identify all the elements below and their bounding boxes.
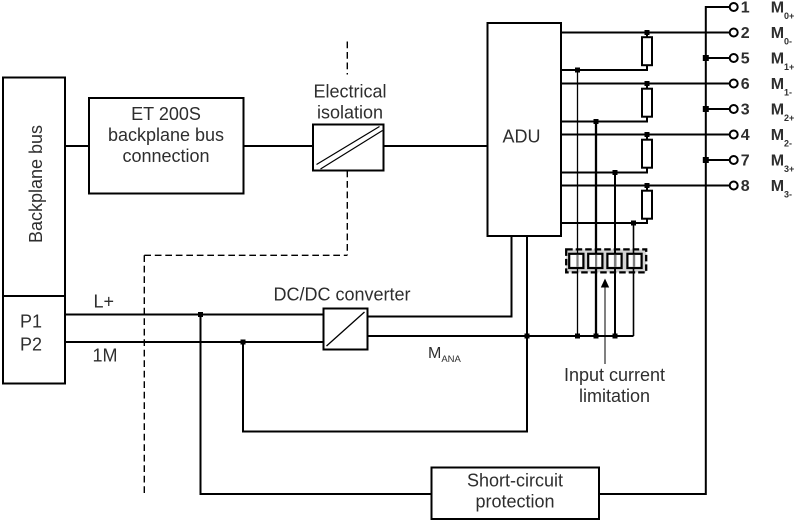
svg-text:protection: protection: [475, 492, 554, 512]
svg-text:3: 3: [741, 102, 750, 119]
svg-text:DC/DC converter: DC/DC converter: [273, 285, 410, 305]
svg-text:backplane bus: backplane bus: [108, 125, 224, 145]
svg-text:limitation: limitation: [579, 386, 650, 406]
svg-text:5: 5: [741, 51, 750, 68]
svg-text:7: 7: [741, 153, 750, 170]
svg-text:8: 8: [741, 178, 750, 195]
svg-text:L+: L+: [94, 292, 115, 312]
svg-text:2: 2: [741, 25, 750, 42]
svg-text:P2: P2: [20, 335, 42, 355]
svg-text:connection: connection: [122, 146, 209, 166]
svg-text:P1: P1: [20, 312, 42, 332]
svg-text:Backplane bus: Backplane bus: [26, 125, 46, 243]
svg-text:ADU: ADU: [502, 127, 540, 147]
svg-text:ET 200S: ET 200S: [131, 104, 201, 124]
svg-text:1M: 1M: [93, 346, 118, 366]
svg-text:Electrical: Electrical: [313, 82, 386, 102]
svg-text:isolation: isolation: [317, 103, 383, 123]
svg-text:1: 1: [741, 0, 750, 17]
svg-text:6: 6: [741, 76, 750, 93]
svg-text:Input current: Input current: [564, 365, 665, 385]
svg-text:4: 4: [741, 127, 750, 144]
svg-text:Short-circuit: Short-circuit: [467, 471, 563, 491]
